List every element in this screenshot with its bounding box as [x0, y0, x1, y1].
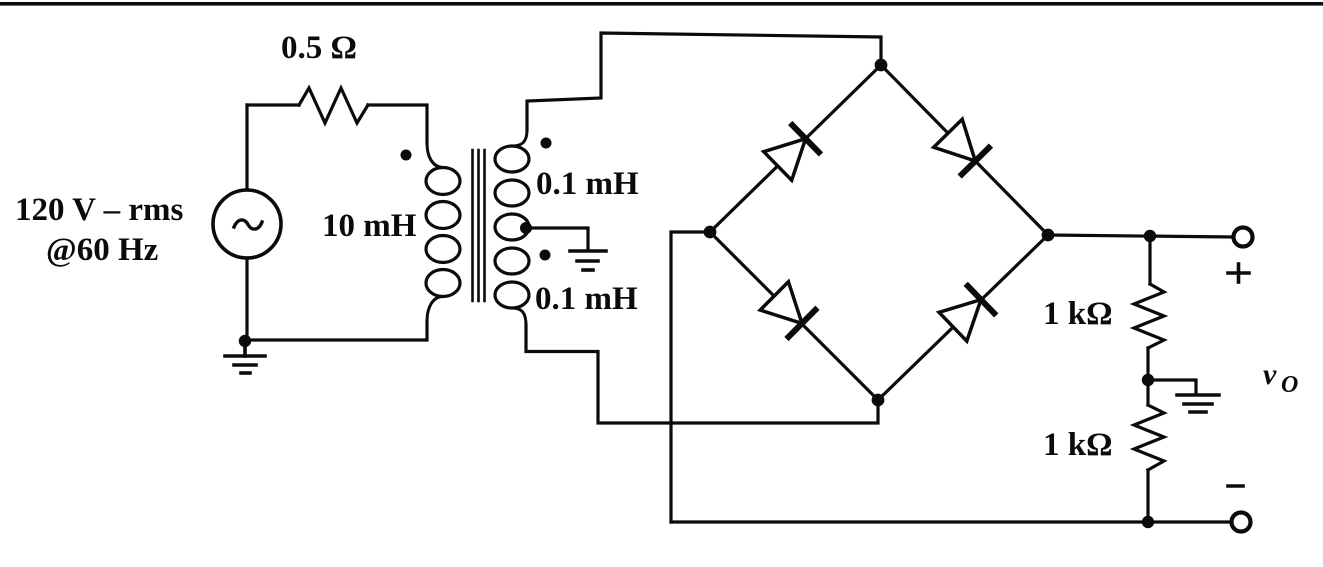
wire between resistors: [1146, 348, 1149, 405]
wire source top: [245, 105, 248, 190]
secondary phase dot lower: [540, 250, 551, 261]
wire load top lead: [1148, 236, 1151, 284]
bridge node top: [875, 59, 888, 72]
svg-text:0.1 mH: 0.1 mH: [536, 166, 639, 202]
bridge node left: [704, 226, 717, 239]
svg-text:0.5 Ω: 0.5 Ω: [281, 30, 357, 66]
minus sign: [1228, 484, 1243, 488]
transformer secondary winding upper 0.1 mH: [495, 130, 529, 240]
svg-text:v: v: [1263, 358, 1277, 391]
node junction bottom rail: [1142, 516, 1154, 528]
svg-text:1 kΩ: 1 kΩ: [1043, 296, 1113, 332]
ground (left): [225, 341, 265, 373]
plus sign: [1228, 264, 1249, 282]
transformer secondary winding lower 0.1 mH: [495, 248, 529, 325]
secondary phase dot upper: [541, 138, 552, 149]
wire top-left horizontal: [247, 103, 299, 106]
wire secondary top to bridge top: [527, 33, 881, 130]
svg-text:0.1 mH: 0.1 mH: [535, 281, 638, 317]
wire left node down to bottom rail: [671, 232, 710, 522]
wire mid tap to ground: [1148, 380, 1196, 393]
terminal + (open circle): [1234, 228, 1253, 247]
terminal - (open circle): [1232, 513, 1251, 532]
ground (load mid): [1177, 395, 1219, 412]
transformer primary winding 10 mH: [426, 143, 460, 321]
svg-text:10 mH: 10 mH: [322, 208, 417, 244]
transformer core: [473, 150, 485, 301]
diode D1 (top-left, points to top node): [764, 124, 820, 180]
top border rule: [0, 2, 1323, 6]
svg-text:@60 Hz: @60 Hz: [46, 232, 158, 268]
AC source V1: [213, 190, 281, 258]
wire secondary bottom to bridge bottom: [526, 325, 878, 423]
diode D4 (bottom-right, points to right node): [939, 285, 995, 341]
bridge side top-right wire: [881, 65, 1048, 235]
wire right node to + terminal: [1048, 235, 1233, 237]
bridge side bottom-left wire: [710, 232, 878, 400]
wire primary bottom: [246, 321, 427, 340]
label 120 V - rms @60 Hz: [15, 192, 184, 268]
resistor R1 1 kOhm: [1134, 284, 1164, 348]
svg-text:120 V – rms: 120 V – rms: [15, 192, 184, 228]
wire bottom rail: [671, 520, 1231, 523]
wire load bottom lead: [1146, 470, 1149, 522]
bridge node right: [1042, 229, 1055, 242]
node junction top of load: [1144, 230, 1156, 242]
primary phase dot: [401, 150, 412, 161]
bridge side bottom-right wire: [878, 235, 1048, 400]
node junction mid load: [1142, 374, 1154, 386]
resistor R2 1 kOhm: [1134, 405, 1164, 470]
wire resistor to transformer: [368, 105, 427, 143]
label vO: [1263, 358, 1298, 398]
bridge node bottom: [872, 394, 885, 407]
bridge side top-left wire: [710, 65, 881, 232]
diode D3 (bottom-left, points to bottom node): [760, 282, 816, 338]
wire source bottom: [245, 258, 248, 341]
wire center tap: [528, 228, 588, 249]
ground (center tap): [570, 251, 606, 270]
diode D2 (top-right, points to right node): [934, 119, 990, 175]
resistor R 0.5 ohm: [299, 88, 368, 123]
svg-text:1 kΩ: 1 kΩ: [1043, 427, 1113, 463]
center tap node: [520, 222, 532, 234]
svg-text:O: O: [1281, 372, 1298, 398]
node junction at source ground: [239, 335, 251, 347]
